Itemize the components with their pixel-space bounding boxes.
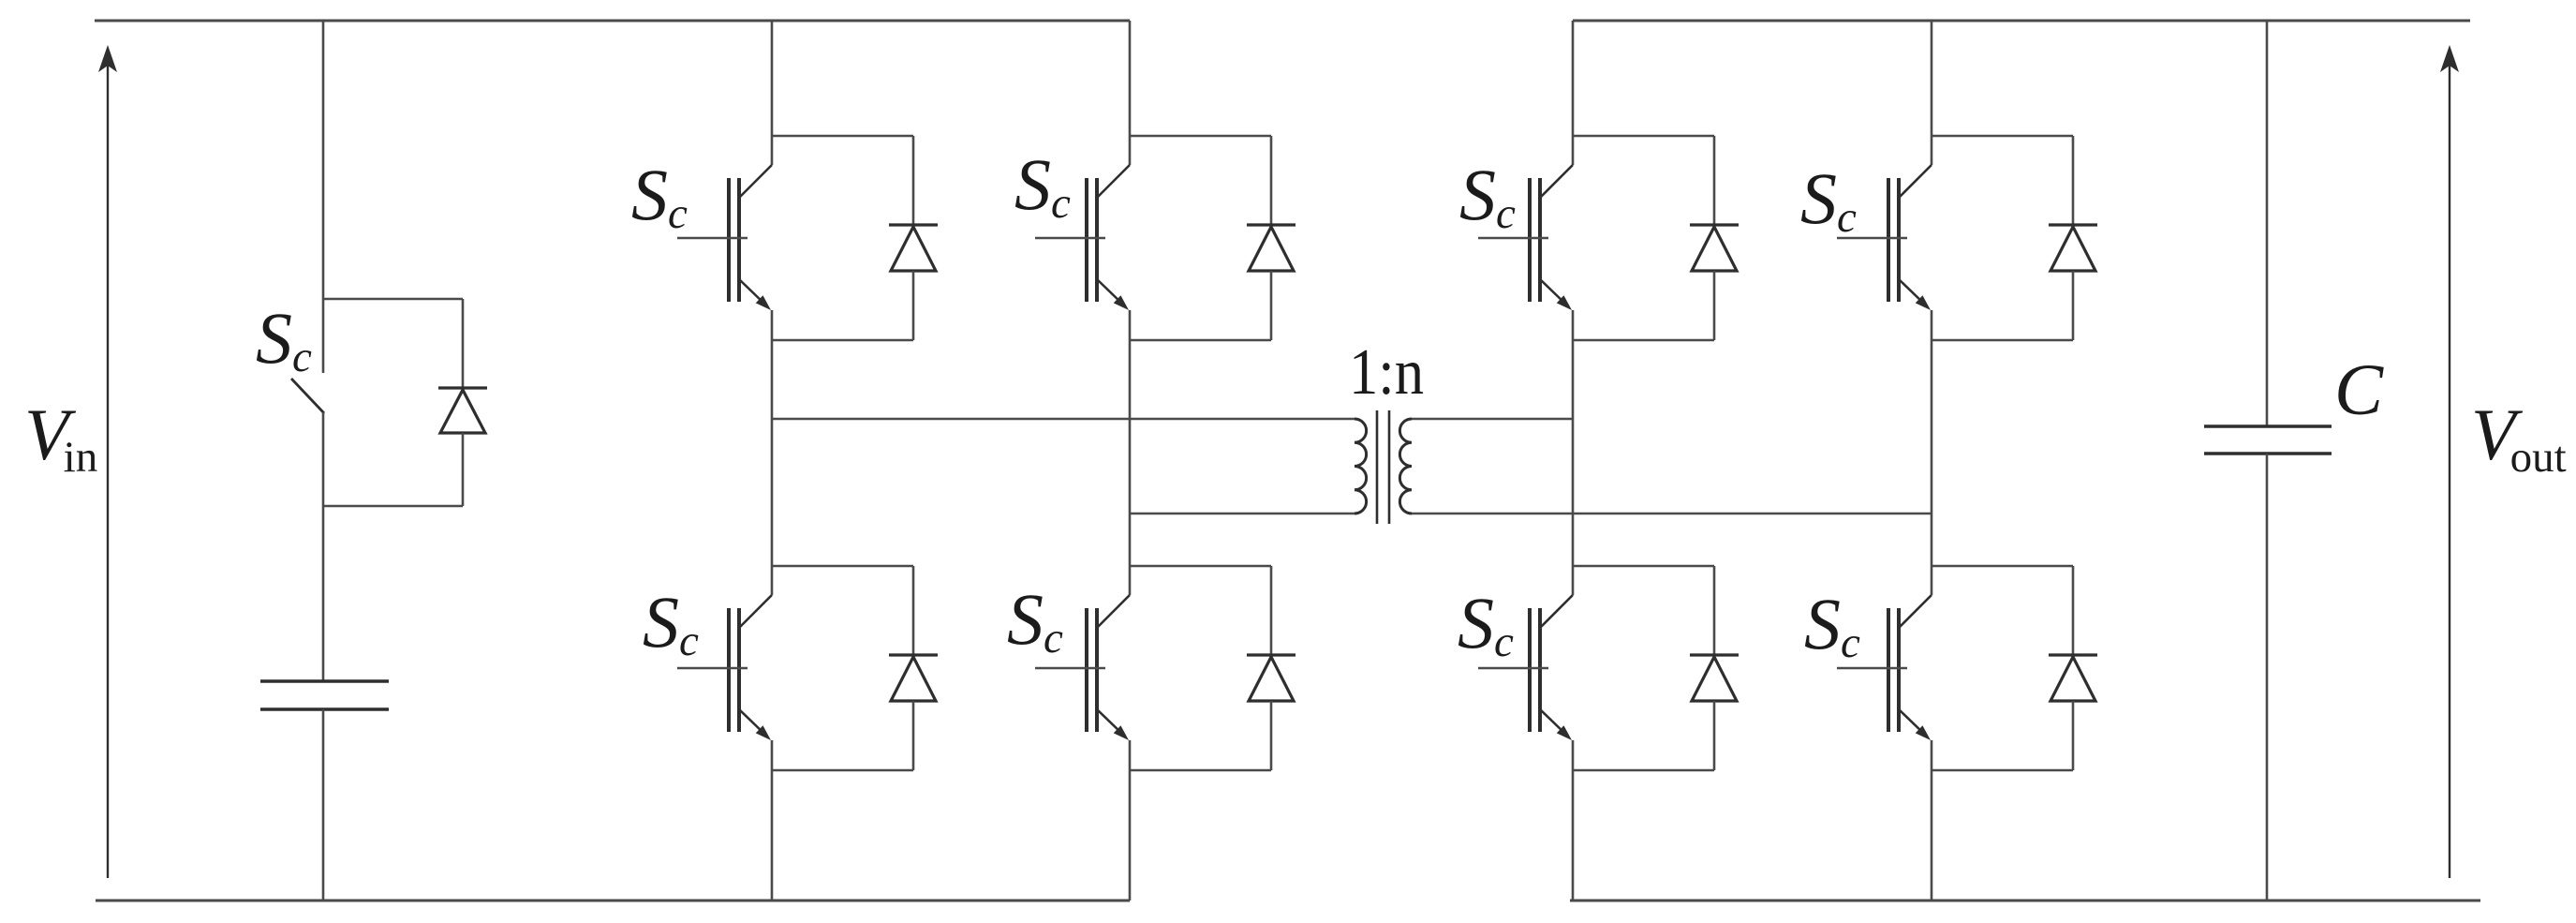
svg-text:C: C [2334,349,2384,430]
wire - input bridge leg A bottom [771,740,774,901]
transformer core [1377,410,1389,524]
switch Sc (clamp) blade [291,379,324,413]
wire - primary top lead (node A to winding) [772,418,1355,421]
transistor S1 (IGBT) [677,165,772,310]
label Sc for S1 [631,154,688,238]
wire - input bridge leg B top [1129,21,1132,165]
Vin measurement arrow [98,45,117,878]
wire - input bridge leg A top [771,21,774,165]
wire - S2 collector branch to diode [1130,135,1271,138]
wire - clamp diode top branch [323,298,463,301]
wire - S5 collector branch to diode [1573,135,1714,138]
wire - S6 emitter branch from diode [1932,339,2073,342]
label 1:n (turns ratio) [1349,336,1424,409]
diode DS4 (anti-parallel) [1247,566,1295,770]
svg-text:Sc: Sc [1014,143,1071,228]
label Vin [24,394,97,482]
svg-text:1:n: 1:n [1349,336,1424,409]
diode DS8 (anti-parallel) [2049,566,2097,770]
wire - output bridge leg C top [1572,21,1575,165]
label Sc for S5 [1459,154,1516,238]
label Sc for clamp switch [256,297,312,381]
label Sc for S7 [1458,582,1514,666]
wire - clamp switch to capacitor [322,412,325,681]
wire - S8 emitter branch from diode [1932,769,2073,772]
transistor S5 (IGBT) [1478,165,1573,310]
wire - output bridge leg C bottom [1572,740,1575,901]
transistor S2 (IGBT) [1035,165,1130,310]
wire - top rail (input side) [95,20,1130,22]
transistor S7 (IGBT) [1478,595,1573,740]
diode DS1 (anti-parallel) [889,136,938,340]
svg-text:Sc: Sc [1804,583,1860,667]
svg-text:Vin: Vin [24,394,97,482]
diode DS2 (anti-parallel) [1247,136,1295,340]
svg-text:Sc: Sc [1458,582,1514,666]
wire - bottom rail (input side) [96,900,1130,902]
label Sc for S6 [1800,157,1857,242]
wire - S1 emitter branch from diode [772,339,913,342]
wire - S4 emitter branch from diode [1130,769,1271,772]
transistor S4 (IGBT) [1035,595,1130,740]
wire - S3 collector branch to diode [772,565,913,568]
wire - top rail (output side) [1573,20,2470,22]
label Sc for S8 [1804,583,1860,667]
label Sc for S2 [1014,143,1071,228]
wire - output bridge leg D middle [1931,310,1933,595]
wire - S4 collector branch to diode [1130,565,1271,568]
transistor S3 (IGBT) [677,595,772,740]
wire - output capacitor leg top [2266,21,2269,426]
wire - input bridge leg B middle [1129,310,1132,595]
wire - S7 emitter branch from diode [1573,769,1714,772]
capacitor C (output) [2204,426,2332,454]
diode DS5 (anti-parallel) [1690,136,1739,340]
wire - clamp diode bottom branch [323,505,463,508]
diode DS3 (anti-parallel) [889,566,938,770]
label Sc for S4 [1007,578,1063,662]
svg-text:Vout: Vout [2471,394,2567,482]
wire - S6 collector branch to diode [1932,135,2073,138]
wire - output bridge leg C middle [1572,310,1575,595]
inductor - transformer secondary winding [1399,419,1412,514]
label C [2334,349,2384,430]
inductor - transformer primary winding [1355,419,1367,514]
wire - S3 emitter branch from diode [772,769,913,772]
wire - output bridge leg D bottom [1931,740,1933,901]
label Vout [2471,394,2567,482]
diode DS6 (anti-parallel) [2049,136,2097,340]
Vout measurement arrow [2440,45,2459,878]
wire - secondary top lead (winding to node C) [1412,418,1573,421]
svg-text:Sc: Sc [256,297,312,381]
svg-text:Sc: Sc [1459,154,1516,238]
wire - bottom rail (output side) [1570,900,2480,902]
diode DS7 (anti-parallel) [1690,566,1739,770]
label Sc for S3 [643,581,699,665]
wire - primary bottom lead (node B to winding) [1130,513,1355,515]
wire - input bridge leg A middle [771,310,774,595]
capacitor Cin [260,681,389,709]
transistor S6 (IGBT) [1837,165,1932,310]
wire - clamp leg from top rail [322,21,325,373]
wire - output bridge leg D top [1931,21,1933,165]
wire - S7 collector branch to diode [1573,565,1714,568]
wire - S1 collector branch to diode [772,135,913,138]
transistor S8 (IGBT) [1837,595,1932,740]
svg-text:Sc: Sc [631,154,688,238]
svg-text:Sc: Sc [643,581,699,665]
svg-text:Sc: Sc [1800,157,1857,242]
wire - output capacitor leg bottom [2266,454,2269,901]
wire - S2 emitter branch from diode [1130,339,1271,342]
diode Dc (clamp, anti-parallel) [438,299,487,506]
wire - input bridge leg B bottom [1129,740,1132,901]
wire - input capacitor to bottom rail [322,709,325,901]
wire - S5 emitter branch from diode [1573,339,1714,342]
wire - S8 collector branch to diode [1932,565,2073,568]
svg-text:Sc: Sc [1007,578,1063,662]
wire - secondary bottom lead (winding to node D) [1412,513,1932,515]
